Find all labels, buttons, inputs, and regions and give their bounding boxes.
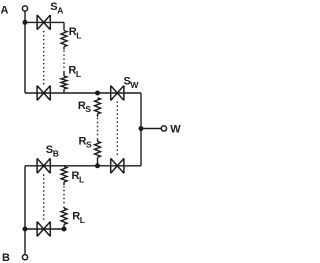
svg-text:RL: RL: [68, 65, 81, 80]
wire dotted SW-SW2: [116, 102, 118, 158]
wire RL stub1: [63, 47, 65, 50]
wire RL stub2: [63, 71, 65, 76]
resistor RS2: [95, 141, 101, 157]
node A junction: [23, 20, 28, 25]
svg-text:RL: RL: [72, 170, 85, 185]
resistor RL2: [61, 76, 67, 89]
wire RL dotted (lower): [63, 186, 65, 206]
svg-text:A: A: [1, 5, 9, 17]
svg-text:RL: RL: [72, 211, 85, 226]
svg-text:SW: SW: [124, 76, 140, 91]
wire dotted SA-SA2: [43, 31, 45, 85]
svg-text:SA: SA: [50, 1, 63, 16]
switch SW2 (row3 right): [111, 158, 124, 173]
wire RL chain bottom: [63, 89, 65, 93]
wire RL stub4: [63, 206, 65, 208]
terminal W: [161, 126, 166, 131]
switch SW: [111, 86, 124, 101]
resistor RL1: [61, 31, 67, 47]
terminal B: [22, 255, 27, 260]
svg-text:SB: SB: [46, 144, 59, 159]
svg-text:RS: RS: [78, 100, 92, 114]
node RS top junction: [95, 91, 100, 96]
svg-text:RL: RL: [69, 26, 82, 41]
wire row3: [25, 165, 141, 167]
wire B stub: [24, 229, 26, 254]
wire dotted SB-SB2: [43, 174, 45, 220]
wire right rail: [140, 93, 142, 166]
wire RL4 bottom: [63, 224, 65, 229]
node RS bottom junction: [95, 163, 100, 168]
resistor RL4: [61, 208, 67, 224]
wire RL dotted (upper): [63, 51, 65, 71]
switch SB: [37, 158, 50, 173]
wire left rail lower: [24, 166, 26, 229]
node RL-row4 junction: [62, 227, 67, 232]
node W junction: [139, 126, 144, 131]
switch SA2 (row2 left): [37, 86, 50, 101]
svg-text:W: W: [170, 124, 181, 136]
wire left rail upper: [24, 22, 26, 93]
wire W tap: [141, 128, 161, 130]
switch SB2 (row4): [37, 222, 50, 237]
wire RL chain top: [63, 22, 65, 30]
svg-text:B: B: [2, 252, 10, 263]
wire A stub: [24, 12, 26, 23]
wire RS chain bottom: [97, 157, 99, 165]
wire row1: [25, 21, 64, 23]
switch SA: [37, 15, 50, 30]
wire RS dotted: [97, 118, 99, 138]
node B junction: [23, 227, 28, 232]
terminal A: [22, 6, 27, 11]
resistor RS1: [95, 98, 101, 114]
wire RS stub1: [97, 114, 99, 117]
svg-text:RS: RS: [79, 136, 93, 150]
wire row2: [25, 92, 141, 94]
wire RS stub2: [97, 138, 99, 141]
wire row4: [25, 228, 64, 230]
wire RL stub3: [63, 182, 65, 185]
resistor RL3: [61, 167, 67, 183]
